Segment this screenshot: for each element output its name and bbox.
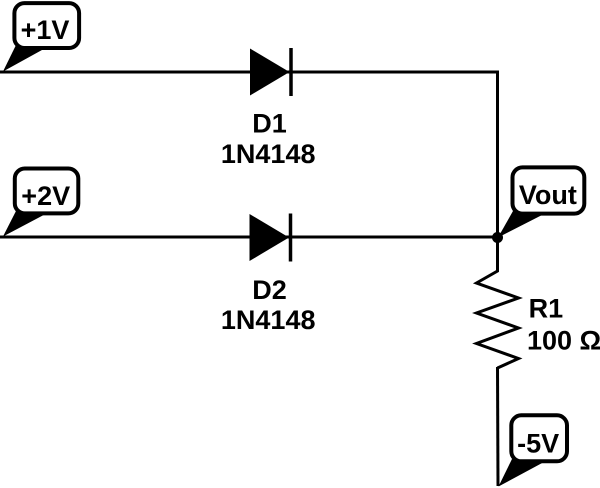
node: Vout junction dot bbox=[492, 232, 503, 243]
svg-text:-5V: -5V bbox=[517, 429, 559, 459]
svg-text:1N4148: 1N4148 bbox=[221, 139, 316, 169]
svg-text:R1: R1 bbox=[529, 294, 564, 324]
svg-text:Vout: Vout bbox=[519, 180, 577, 210]
net label Vout (callout bubble with tail to node) bbox=[498, 167, 584, 237]
net label +1V (callout bubble with tail to wire W1) bbox=[3, 3, 79, 71]
svg-text:+2V: +2V bbox=[21, 181, 70, 211]
wire W3: +2V input horizontal bbox=[0, 236, 498, 239]
svg-text:+1V: +1V bbox=[21, 15, 70, 45]
diode D1 bbox=[250, 48, 291, 96]
wire W1: +1V input horizontal bbox=[0, 71, 498, 74]
net label -5V (callout bubble with tail to wire W4 end) bbox=[499, 415, 568, 486]
diode D2 bbox=[250, 214, 291, 262]
svg-text:100 Ω: 100 Ω bbox=[527, 326, 600, 356]
wire W4: from R1 down to -5V terminal bbox=[496, 367, 500, 486]
resistor R1 zigzag bbox=[477, 238, 519, 368]
svg-text:D2: D2 bbox=[252, 275, 287, 305]
net label +2V (callout bubble with tail to wire W3) bbox=[3, 169, 78, 237]
svg-text:1N4148: 1N4148 bbox=[221, 305, 316, 335]
svg-text:D1: D1 bbox=[252, 109, 287, 139]
wire W2: vertical from D1 output down to Vout node and resistor bbox=[496, 71, 499, 239]
